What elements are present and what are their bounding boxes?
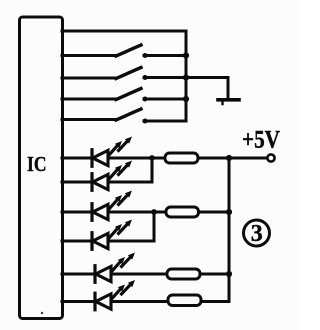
resistor R1: [165, 153, 198, 163]
wire L2 left: [62, 54, 116, 57]
node S4 contact: [143, 119, 148, 124]
wire riser pair1: [151, 158, 154, 182]
resistor R3: [167, 269, 200, 279]
LED D2: [92, 161, 132, 191]
wire switch bus vertical: [144, 31, 186, 121]
speck (scan noise): [41, 312, 43, 314]
wire R4 to bus corner: [201, 300, 229, 303]
LED D4: [92, 220, 132, 250]
node S1 contact: [143, 53, 148, 58]
wire +5V bus vertical: [228, 158, 231, 302]
LED D5: [95, 253, 135, 283]
node circled 3: [244, 220, 270, 247]
svg-text:IC: IC: [27, 152, 47, 176]
wire row C anode: [62, 211, 92, 214]
node bus junction R2: [226, 209, 232, 215]
wire R2 to bus: [199, 211, 230, 214]
wire L1 pin1 to bus corner: [62, 30, 186, 33]
resistor R2: [166, 207, 199, 217]
terminal +5V: [267, 154, 274, 161]
ground: [218, 98, 239, 102]
node bus junction 3: [183, 74, 189, 80]
node junction A: [149, 155, 155, 161]
node S2 contact: [143, 75, 148, 80]
wire L4 right: [144, 98, 186, 101]
wire L4 left: [62, 98, 116, 101]
LED D6: [95, 280, 135, 310]
switch S3 blade: [116, 89, 141, 100]
wire row A to resistor: [108, 157, 165, 160]
node S3 contact: [143, 97, 148, 102]
wire R1 to terminal: [198, 157, 267, 160]
wire L3 right: [144, 76, 186, 79]
wire row D cathode: [108, 240, 154, 243]
switch S2 blade: [116, 68, 141, 79]
switch S4 blade: [116, 109, 141, 120]
wire row D anode: [62, 240, 92, 243]
wire row E anode: [62, 273, 95, 276]
wire ground tap: [186, 78, 228, 99]
wire row B cathode: [108, 181, 152, 184]
wire L2 right: [144, 54, 186, 57]
node junction B: [151, 209, 157, 215]
wire row C to resistor: [108, 211, 166, 214]
IC U1 box: [20, 17, 63, 319]
wire L5 left: [62, 118, 116, 121]
node bus junction R3: [226, 271, 232, 277]
wire row B anode: [62, 181, 92, 184]
node bus junction 2: [183, 52, 189, 58]
wire R3 to bus: [200, 273, 229, 276]
LED D3: [92, 191, 132, 221]
node bus top junction: [226, 155, 232, 161]
svg-text:+5V: +5V: [242, 127, 280, 154]
wire L3 left: [62, 77, 116, 80]
wire row A anode: [62, 157, 92, 160]
wire row F anode: [62, 300, 95, 303]
svg-text:3: 3: [251, 221, 263, 247]
wire row F to resistor: [111, 300, 168, 303]
LED D1: [92, 137, 132, 167]
wire row E to resistor: [111, 273, 167, 276]
node bus junction 4: [183, 96, 189, 102]
switch S1 blade: [116, 45, 141, 56]
resistor R4: [168, 295, 201, 306]
wire riser pair2: [153, 212, 156, 241]
